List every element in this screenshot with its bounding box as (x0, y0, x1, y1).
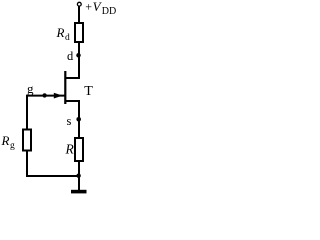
svg-text:+: + (85, 0, 92, 14)
svg-text:R: R (1, 133, 10, 148)
svg-text:g: g (27, 81, 34, 96)
svg-text:T: T (84, 84, 93, 99)
svg-text:R: R (56, 25, 65, 40)
svg-text:d: d (65, 33, 70, 43)
svg-text:R: R (65, 141, 75, 156)
svg-text:d: d (67, 49, 74, 63)
svg-text:s: s (67, 114, 72, 128)
svg-text:DD: DD (102, 6, 116, 17)
svg-text:g: g (10, 141, 15, 151)
